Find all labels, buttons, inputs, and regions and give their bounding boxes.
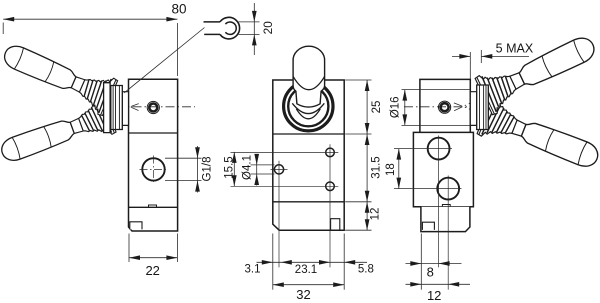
left view neck bushing xyxy=(122,92,128,126)
dimension G1/8 extension ticks xyxy=(165,157,202,159)
wrench symbol jaws xyxy=(204,21,221,23)
front view right holes crosshair horizontal lower xyxy=(231,185,339,187)
svg-text:23.1: 23.1 xyxy=(295,264,317,276)
right view mid section xyxy=(413,132,473,206)
svg-text:5.8: 5.8 xyxy=(358,263,374,275)
left view section tick notch xyxy=(149,205,157,207)
dimension 80 line xyxy=(3,18,177,20)
dimension 5 MAX line xyxy=(452,55,470,57)
left view lower lever xyxy=(0,85,145,172)
right view section tick notch xyxy=(442,205,450,207)
left view retaining nut xyxy=(111,86,123,130)
left view body outline xyxy=(129,79,178,231)
front view left hole crosshairs xyxy=(271,168,288,170)
svg-text:32: 32 xyxy=(296,287,310,302)
svg-text:Ø16: Ø16 xyxy=(390,96,402,118)
svg-text:3.1: 3.1 xyxy=(245,264,261,276)
right view screw hole xyxy=(439,101,451,113)
dimension 22 extension lines xyxy=(128,234,130,263)
front view toggle knob and stem outline xyxy=(293,46,325,107)
front view left hole xyxy=(274,165,283,174)
front view boot ring outer dark band xyxy=(284,82,333,131)
dimension 80 extension line right xyxy=(176,23,178,76)
front view section line 1 xyxy=(273,133,344,135)
svg-text:5 MAX: 5 MAX xyxy=(496,42,534,56)
leader line to nut xyxy=(124,28,205,94)
left view horizontal centerline xyxy=(116,106,195,108)
front view right holes centerline vertical xyxy=(329,144,331,267)
dimension diameter 4.1 extension ticks xyxy=(251,164,275,166)
front view boot fold arcs under stem xyxy=(292,103,324,113)
left view section line 1 xyxy=(129,132,178,134)
dimension 15.5 line xyxy=(233,152,235,186)
svg-text:G1/8: G1/8 xyxy=(202,157,214,182)
wrench extension lines xyxy=(239,21,260,23)
dimension 22 line xyxy=(129,257,177,259)
front bottom extension lines xyxy=(272,234,274,290)
dimension 20 line xyxy=(253,3,255,55)
front view boot ring inner band xyxy=(288,86,328,126)
front view knob band xyxy=(293,76,325,89)
right view neck bushing xyxy=(470,92,476,126)
dimension G1/8 line xyxy=(197,146,199,193)
dimension diameter 16 line xyxy=(404,90,406,126)
svg-text:25: 25 xyxy=(371,101,383,114)
svg-text:18: 18 xyxy=(385,163,397,176)
dimension diameter 4.1 line xyxy=(256,154,258,186)
right view bottom-left notch xyxy=(422,222,434,230)
wrench symbol head xyxy=(220,17,240,39)
dimension 18 line xyxy=(398,149,400,189)
left view screw hole xyxy=(147,101,159,113)
left view port crosshairs xyxy=(140,168,168,170)
svg-text:12: 12 xyxy=(427,288,441,303)
right bottom extension line xyxy=(420,234,422,290)
front view section line 2 xyxy=(273,201,344,203)
svg-text:80: 80 xyxy=(171,2,186,17)
front view lower right hole xyxy=(326,182,335,191)
front right extension lines xyxy=(345,79,371,81)
front view body outline xyxy=(273,80,344,230)
svg-text:8: 8 xyxy=(427,264,434,279)
svg-text:31.5: 31.5 xyxy=(371,156,383,178)
right view upper port circle xyxy=(428,138,450,160)
dimension 25 31.5 12 line xyxy=(366,80,368,230)
front bottom dimension 32 xyxy=(273,284,344,286)
left view section line 2 xyxy=(129,206,178,208)
right view bottom section xyxy=(421,207,470,232)
front bottom dimension row 3.1 23.1 5.8 xyxy=(257,261,368,263)
svg-text:12: 12 xyxy=(370,208,382,221)
front view right holes crosshair horizontal upper xyxy=(231,151,339,153)
front view bottom-right notch xyxy=(331,219,340,231)
right view lower lever xyxy=(446,83,600,178)
left view boot flange xyxy=(104,83,111,133)
dimension diameter 16 extension lines xyxy=(402,89,471,91)
right bottom dimension 12 row xyxy=(406,283,471,285)
right view horizontal centerline xyxy=(404,106,477,108)
svg-text:22: 22 xyxy=(145,263,159,278)
right view retaining nut xyxy=(477,85,489,130)
left view upper lever xyxy=(0,35,146,129)
right view top section xyxy=(420,79,470,132)
svg-text:Ø4.1: Ø4.1 xyxy=(242,155,254,180)
dimension 80 extension line left xyxy=(2,23,4,35)
left view bottom-left notch xyxy=(130,222,142,230)
left view port circle G1/8 xyxy=(142,158,164,180)
right view upper lever xyxy=(445,26,600,130)
right view lower port circle xyxy=(437,178,459,200)
svg-text:20: 20 xyxy=(261,21,275,35)
svg-text:15.5: 15.5 xyxy=(223,156,235,178)
dimension 5 MAX extension lines xyxy=(469,52,471,79)
front view upper right hole xyxy=(326,148,335,157)
right bottom dimension 8 row xyxy=(406,263,462,265)
wrench symbol mouth xyxy=(225,22,236,34)
right view port crosshairs xyxy=(394,148,452,150)
